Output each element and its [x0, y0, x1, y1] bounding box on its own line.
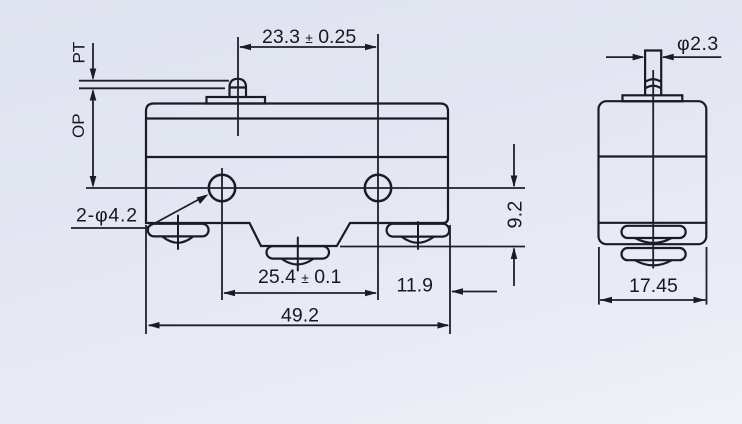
side centre line — [652, 70, 654, 269]
leader arrowhead — [197, 194, 209, 204]
arrowheads — [90, 44, 518, 329]
side terminal lower — [622, 248, 686, 265]
dimension line 25.4 — [224, 292, 376, 294]
phi2.3 arrowhead right-pointing — [633, 54, 645, 61]
17.45 arrowhead right — [694, 297, 706, 304]
hole right — [365, 175, 391, 201]
switch body outline (front view) — [146, 104, 448, 247]
OP dimension line — [92, 91, 94, 185]
svg-text:25.4 ± 0.1: 25.4 ± 0.1 — [258, 266, 341, 288]
leader arrow line — [146, 196, 206, 229]
vertical centre line right hole / extension — [377, 34, 379, 300]
OP arrowhead down — [90, 176, 97, 188]
49.2 arrowhead right — [438, 322, 450, 329]
svg-text:OP: OP — [69, 113, 88, 138]
plunger flange plate — [207, 97, 266, 104]
9.2 arrowhead up — [511, 247, 518, 259]
phi2.3 dim line left — [606, 56, 643, 58]
phi2.3 arrowhead left-pointing — [662, 54, 674, 61]
9.2 arrow line bottom — [513, 249, 515, 287]
OP arrowhead up — [90, 89, 97, 101]
dimension texts front view — [69, 26, 527, 327]
body inner line lower — [146, 156, 448, 158]
side flange plate — [623, 95, 683, 101]
plunger centre line — [237, 37, 239, 136]
phi2.3 dim line right — [663, 56, 721, 58]
9.2 arrow line top — [513, 144, 515, 186]
vertical centre line left hole — [221, 168, 223, 300]
terminal screw middle — [267, 238, 330, 271]
PT reference line lower — [79, 87, 225, 89]
17.45 dim line — [600, 299, 706, 301]
svg-text:23.3 ± 0.25: 23.3 ± 0.25 — [262, 26, 356, 48]
side inner line upper — [599, 155, 707, 157]
svg-text:17.45: 17.45 — [629, 275, 678, 297]
9.2 arrowhead down — [511, 176, 518, 188]
23.3 arrowhead left — [239, 44, 251, 51]
PT arrow line — [92, 43, 94, 78]
hole left — [209, 175, 235, 201]
side body outline — [599, 101, 707, 244]
terminal screw right — [387, 222, 450, 249]
svg-text:9.2: 9.2 — [505, 201, 527, 229]
thin construction / dimension lines — [71, 34, 525, 334]
11.9 arrowhead left — [451, 288, 463, 295]
extension line body right — [449, 225, 451, 334]
dimension line 49.2 — [149, 324, 448, 326]
svg-text:φ2.3: φ2.3 — [677, 33, 719, 55]
49.2 arrowhead left — [148, 322, 160, 329]
25.4 arrowhead right — [365, 290, 377, 297]
11.9 arrow line — [452, 291, 497, 293]
side plunger pin — [645, 51, 661, 96]
side terminal upper — [622, 226, 686, 243]
17.45 arrowhead left — [600, 297, 612, 304]
dimension line 23.3 — [240, 46, 376, 48]
terminal screw left — [148, 216, 209, 250]
svg-text:49.2: 49.2 — [281, 305, 319, 327]
25.4 arrowhead left — [223, 290, 235, 297]
17.45 extension right — [706, 247, 708, 305]
PT arrowhead down — [90, 69, 97, 81]
17.45 extension left — [598, 247, 600, 305]
leader underline 2-phi4.2 — [71, 227, 146, 229]
svg-text:PT: PT — [70, 42, 89, 64]
svg-text:11.9: 11.9 — [397, 275, 434, 297]
side inner line lower — [599, 222, 707, 224]
horizontal hole centre line — [86, 187, 525, 189]
PT reference line upper — [79, 80, 229, 82]
extension line body left — [145, 225, 147, 334]
body inner line upper — [146, 117, 448, 119]
9.2 reference line bottom — [340, 246, 525, 248]
plunger dome — [230, 79, 247, 97]
23.3 arrowhead right — [365, 44, 377, 51]
svg-text:2-φ4.2: 2-φ4.2 — [76, 205, 138, 227]
